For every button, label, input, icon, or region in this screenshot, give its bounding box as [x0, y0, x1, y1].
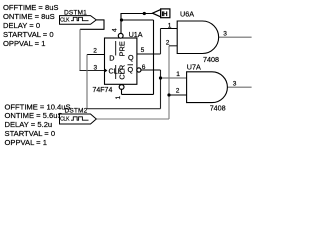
flip-flop U1A body: [105, 38, 137, 84]
svg-text:U6A: U6A: [180, 10, 194, 19]
svg-text:7408: 7408: [203, 55, 219, 64]
svg-text:STARTVAL = 0: STARTVAL = 0: [5, 129, 56, 138]
svg-text:2: 2: [93, 48, 97, 55]
svg-text:CLK: CLK: [60, 116, 70, 122]
wire stimulus vertical to gates: [168, 46, 170, 119]
svg-text:1: 1: [168, 22, 172, 29]
svg-text:2: 2: [166, 40, 170, 47]
clock triangle: [105, 68, 108, 72]
svg-text:Q: Q: [128, 65, 134, 74]
junction dot U7A input 2: [167, 93, 170, 96]
wire HI line to PRE net: [121, 13, 153, 15]
CLR bubble: [119, 85, 124, 90]
svg-text:DSTM2: DSTM2: [65, 108, 88, 115]
wire Q up to U6A: [160, 29, 162, 55]
svg-text:STARTVAL = 0: STARTVAL = 0: [3, 30, 54, 39]
wire DSTM1 jog horizontal: [80, 28, 105, 30]
HI logic-1 symbol: [153, 9, 170, 18]
svg-text:OFFTIME = 8uS: OFFTIME = 8uS: [3, 3, 59, 12]
svg-text:1: 1: [176, 71, 180, 78]
svg-text:3: 3: [94, 65, 98, 72]
svg-text:4: 4: [112, 28, 119, 32]
svg-text:5: 5: [141, 47, 145, 54]
svg-text:D: D: [109, 53, 114, 62]
wire PRE vertical drop: [120, 13, 122, 33]
svg-text:2: 2: [176, 87, 180, 94]
wire DSTM2 output rail: [96, 118, 169, 120]
svg-text:3: 3: [223, 31, 227, 38]
svg-text:74F74: 74F74: [93, 87, 113, 94]
svg-text:3: 3: [233, 80, 237, 87]
PRE bubble: [118, 33, 123, 38]
svg-text:DELAY = 0: DELAY = 0: [3, 21, 40, 30]
svg-text:ONTIME = 8uS: ONTIME = 8uS: [3, 12, 55, 21]
wire CLK input: [80, 70, 105, 72]
wire Q output (pin 5): [137, 53, 161, 55]
stimulus DSTM1 clock symbol: [60, 16, 97, 25]
wire Q-bar vertical: [160, 70, 162, 109]
junction dot PRE branch: [120, 18, 123, 21]
svg-text:OPPVAL = 1: OPPVAL = 1: [5, 138, 47, 147]
svg-text:U1A: U1A: [129, 30, 143, 39]
junction dot U7A input 1: [159, 76, 162, 79]
wire feedback rail: [87, 108, 161, 110]
junction dot on HI line: [143, 12, 146, 15]
svg-text:7408: 7408: [210, 104, 226, 113]
svg-text:6: 6: [142, 64, 146, 71]
svg-text:IH: IH: [162, 11, 168, 18]
svg-text:OPPVAL = 1: OPPVAL = 1: [3, 39, 45, 48]
svg-text:1: 1: [115, 96, 122, 100]
wire DSTM1 output horizontal: [96, 19, 104, 21]
svg-text:DELAY = 5.2u: DELAY = 5.2u: [5, 120, 53, 129]
svg-text:CLK: CLK: [60, 18, 70, 24]
wire U7A input 1: [161, 77, 187, 79]
wire U7A input 2: [169, 94, 187, 96]
wire CLR rail: [122, 93, 154, 95]
svg-text:PRE: PRE: [118, 41, 127, 56]
AND gate U6A body: [177, 21, 218, 54]
wire U6A output: [219, 36, 252, 38]
wire DSTM1 down to CLK: [79, 29, 81, 70]
wire U6A input 1: [161, 28, 178, 30]
svg-text:ONTIME = 5.6uS: ONTIME = 5.6uS: [5, 111, 63, 120]
wire branch to CLR (long vertical): [153, 20, 155, 94]
wire U6A input 2: [169, 45, 177, 47]
wire branch to CLR (horizontal): [121, 19, 154, 21]
wire Q-bar output (pin 6): [141, 69, 161, 71]
wire D input: [87, 54, 105, 56]
stimulus DSTM2 clock symbol: [60, 114, 97, 124]
Q-bar bubble: [137, 68, 141, 72]
wire CLR pin stub: [121, 89, 123, 94]
svg-text:OFFTIME = 10.4uS: OFFTIME = 10.4uS: [5, 102, 71, 111]
svg-text:Q: Q: [128, 53, 134, 62]
svg-text:CLR: CLR: [118, 65, 127, 80]
AND gate U7A body: [187, 72, 228, 103]
wire U7A output: [228, 86, 252, 88]
wire D feedback vertical: [86, 55, 88, 109]
wire DSTM1 jog vertical: [103, 20, 105, 29]
svg-text:U7A: U7A: [187, 62, 201, 71]
